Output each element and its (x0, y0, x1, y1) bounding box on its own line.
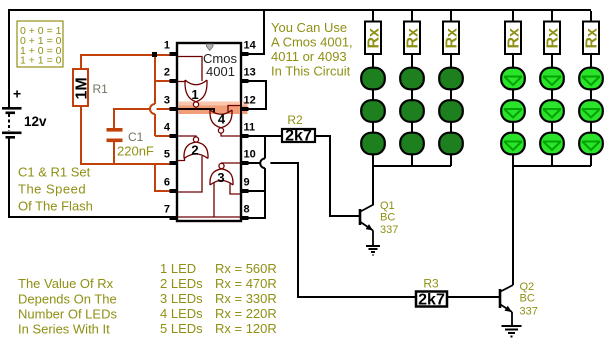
svg-text:You Can Use: You Can Use (271, 20, 347, 35)
svg-text:220nF: 220nF (117, 144, 154, 159)
svg-text:11: 11 (244, 122, 256, 134)
svg-text:+: + (13, 86, 21, 102)
svg-text:4 LEDs: 4 LEDs (160, 306, 203, 321)
svg-text:2: 2 (191, 143, 198, 158)
svg-text:C1: C1 (128, 130, 144, 144)
svg-text:12v: 12v (24, 114, 47, 129)
svg-text:337: 337 (520, 306, 538, 318)
svg-text:Rx: Rx (405, 28, 422, 49)
svg-text:R1: R1 (93, 82, 109, 96)
svg-text:R2: R2 (287, 113, 303, 127)
svg-text:1: 1 (164, 40, 170, 52)
svg-text:BC: BC (380, 212, 395, 224)
svg-text:Rx: Rx (506, 28, 523, 49)
svg-text:Rx = 560R: Rx = 560R (215, 261, 277, 276)
svg-text:4: 4 (218, 112, 226, 127)
svg-text:Rx: Rx (444, 28, 461, 49)
svg-text:1 LED: 1 LED (160, 261, 196, 276)
svg-text:10: 10 (244, 149, 256, 161)
svg-text:4011 or 4093: 4011 or 4093 (271, 49, 347, 64)
svg-text:9: 9 (244, 177, 250, 189)
svg-text:4001: 4001 (206, 64, 235, 79)
svg-text:4: 4 (164, 122, 171, 134)
svg-text:12: 12 (244, 95, 256, 107)
svg-text:Rx: Rx (584, 28, 601, 49)
svg-text:Rx: Rx (366, 28, 383, 49)
svg-text:BC: BC (520, 293, 535, 305)
svg-text:Q1: Q1 (380, 200, 395, 212)
svg-text:6: 6 (164, 177, 170, 189)
svg-text:Number Of LEDs: Number Of LEDs (18, 307, 117, 322)
svg-text:In Series With It: In Series With It (18, 322, 110, 337)
svg-text:3: 3 (217, 170, 224, 185)
svg-text:13: 13 (244, 67, 256, 79)
svg-text:1 + 1 = 0: 1 + 1 = 0 (20, 55, 62, 67)
svg-text:8: 8 (244, 204, 250, 216)
svg-text:7: 7 (164, 204, 170, 216)
svg-text:R3: R3 (423, 277, 439, 291)
svg-text:Rx: Rx (545, 28, 562, 49)
svg-text:2k7: 2k7 (418, 292, 445, 309)
svg-text:5 LEDs: 5 LEDs (160, 321, 203, 336)
svg-text:Rx = 120R: Rx = 120R (215, 321, 277, 336)
svg-text:1: 1 (191, 87, 198, 102)
svg-text:2 LEDs: 2 LEDs (160, 276, 203, 291)
svg-text:2: 2 (164, 67, 170, 79)
svg-text:A Cmos 4001,: A Cmos 4001, (271, 35, 353, 50)
svg-text:2k7: 2k7 (285, 128, 312, 145)
svg-text:The Value Of Rx: The Value Of Rx (18, 276, 114, 291)
svg-text:5: 5 (164, 149, 170, 161)
svg-text:The Speed: The Speed (18, 182, 86, 197)
svg-text:1M: 1M (74, 77, 91, 99)
svg-text:In This Circuit: In This Circuit (271, 64, 351, 79)
svg-text:Q2: Q2 (520, 281, 535, 293)
svg-text:Rx = 470R: Rx = 470R (215, 276, 277, 291)
svg-text:14: 14 (244, 40, 257, 52)
svg-text:Depends On The: Depends On The (18, 292, 117, 307)
svg-text:Rx = 220R: Rx = 220R (215, 306, 277, 321)
svg-text:337: 337 (380, 224, 398, 236)
svg-text:3 LEDs: 3 LEDs (160, 291, 203, 306)
svg-text:3: 3 (164, 95, 170, 107)
svg-text:Of The Flash: Of The Flash (18, 199, 93, 214)
svg-text:C1 & R1 Set: C1 & R1 Set (18, 165, 91, 180)
svg-text:Rx = 330R: Rx = 330R (215, 291, 277, 306)
